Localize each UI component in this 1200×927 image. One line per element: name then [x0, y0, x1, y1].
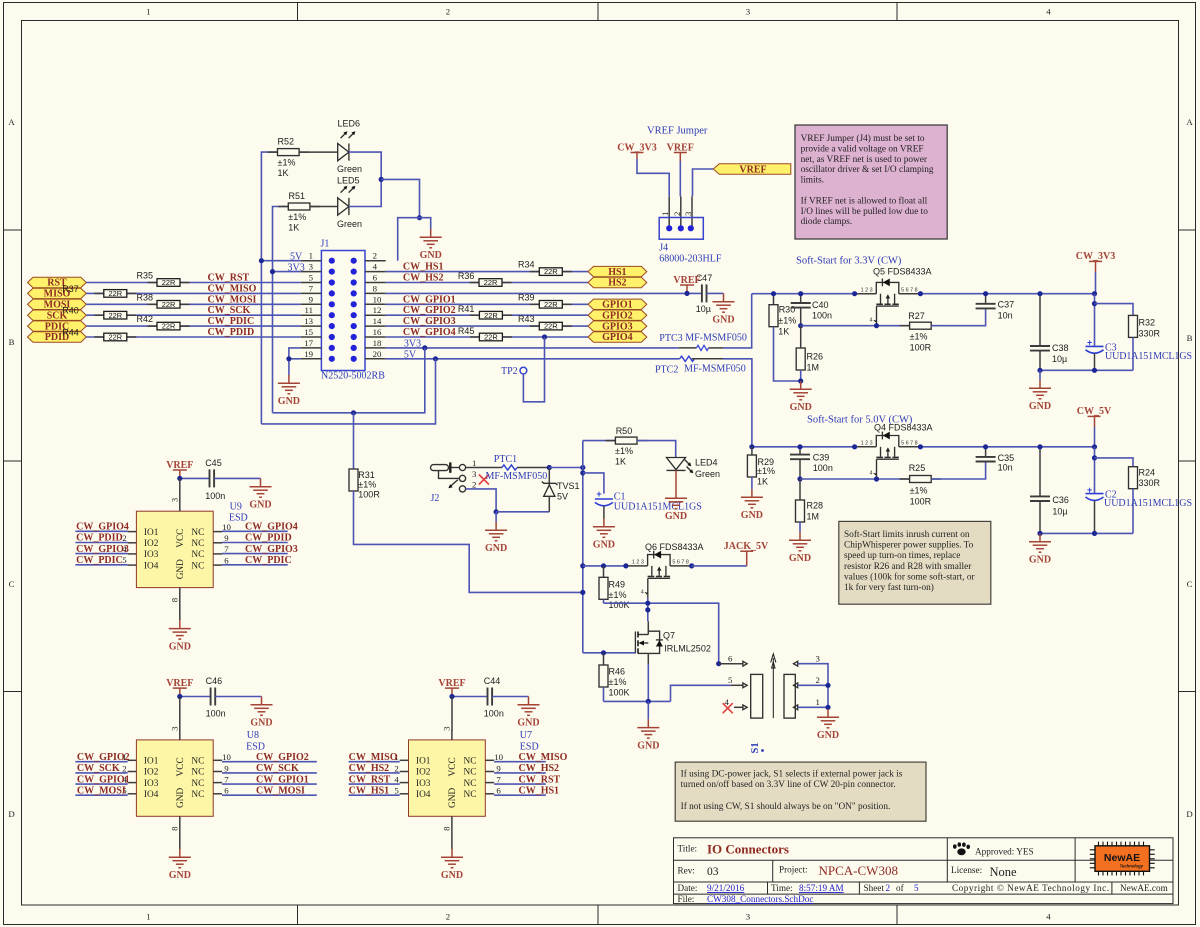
wire C3 branch: [1094, 294, 1096, 347]
ground C46: [250, 697, 272, 729]
node pin3 3V3: [270, 269, 275, 274]
node Q5 gate tap: [874, 323, 879, 328]
wire J2 pin2 to gnd rail: [466, 489, 497, 512]
ground C38: [1029, 380, 1051, 412]
svg-text:1k for very fast turn-on): 1k for very fast turn-on): [844, 582, 934, 593]
capacitor C2 UUD1A151MCL1GS: [1086, 485, 1193, 534]
svg-text:Copyright © NewAE Technology I: Copyright © NewAE Technology Inc.: [952, 883, 1109, 893]
LED LED4: [667, 457, 721, 479]
wire C45 to gnd: [214, 477, 260, 479]
node Q5 drain: [918, 291, 923, 296]
svg-text:NPCA-CW308: NPCA-CW308: [819, 863, 898, 878]
U9 right wires: [222, 531, 288, 565]
wire jack vertical main: [582, 441, 584, 653]
port GPIO1: [588, 299, 647, 310]
power VREF U9: [166, 460, 193, 479]
wire LED junction to GND branch: [381, 179, 419, 217]
wire PTC3 to 3.3V bus: [723, 294, 752, 348]
resistor R38: [137, 292, 190, 309]
connector J2 barrel jack: [431, 458, 478, 504]
resistor R27 100R: [900, 311, 942, 352]
LED LED5: [337, 176, 362, 229]
svg-text:net, as VREF net is used to po: net, as VREF net is used to power: [801, 155, 928, 165]
wire VREF port to J4 pin3: [693, 169, 714, 196]
wire PDIC row: [86, 325, 157, 327]
resistor R28 1M: [796, 479, 824, 532]
svg-text:100K: 100K: [609, 600, 630, 610]
svg-text:CW_SCK: CW_SCK: [256, 763, 299, 774]
wire S1 pin1: [798, 706, 828, 708]
svg-text:D: D: [1186, 809, 1192, 819]
node R26 bottom: [798, 378, 803, 383]
wire source gnd drop: [647, 701, 649, 719]
svg-text:R39: R39: [518, 292, 535, 302]
resistor R50 1K: [583, 426, 647, 467]
svg-text:TVS1: TVS1: [557, 481, 580, 491]
svg-text:6: 6: [728, 654, 733, 664]
capacitor C37 10n: [976, 294, 1015, 321]
svg-text:5: 5: [728, 675, 733, 685]
svg-text:3: 3: [309, 262, 314, 272]
svg-text:CW_HS2: CW_HS2: [519, 763, 560, 774]
wire 3.3V input bus: [752, 293, 855, 295]
wire branch to GND: [420, 218, 431, 229]
svg-text:R38: R38: [137, 292, 154, 302]
svg-text:R44: R44: [62, 327, 79, 337]
svg-text:4: 4: [1046, 7, 1051, 17]
node C2 bottom: [1092, 531, 1097, 536]
svg-text:CW_MOSI: CW_MOSI: [256, 785, 305, 796]
svg-text:UUD1A151MCL1GS: UUD1A151MCL1GS: [1105, 351, 1192, 362]
svg-text:J2: J2: [431, 493, 440, 504]
wire 3.3V gate rail: [801, 325, 910, 327]
svg-text:6: 6: [224, 786, 229, 796]
fuse PTC3 MF-MSMF050: [659, 333, 747, 351]
wire 3.3V output bus: [920, 293, 1094, 295]
wire Q7 source drop: [647, 664, 649, 701]
transistor Q5 FDS8433A: [855, 267, 932, 326]
svg-text:6: 6: [224, 555, 229, 565]
wire VREF to J4 pin2: [679, 161, 681, 196]
svg-text:B: B: [1187, 333, 1193, 343]
svg-text:I/O lines will be pulled low d: I/O lines will be pulled low due to: [801, 207, 929, 217]
svg-text:R52: R52: [278, 136, 295, 146]
LED LED6: [337, 119, 362, 175]
resistor R42: [137, 314, 190, 331]
wire Q6 drain to JACK_5V: [692, 565, 747, 567]
svg-text:CW_PDID: CW_PDID: [245, 533, 292, 544]
svg-text:R41: R41: [458, 304, 475, 314]
svg-text:±1%: ±1%: [757, 466, 775, 476]
node S1 pin1: [825, 705, 830, 710]
frame row ticks left: [4, 230, 22, 692]
svg-text:100n: 100n: [206, 709, 226, 719]
svg-text:R51: R51: [289, 191, 306, 201]
wire 3V3 lower rail: [273, 348, 425, 413]
svg-text:1: 1: [146, 7, 150, 17]
svg-text:100R: 100R: [910, 496, 932, 506]
TITLEBLOCK: [674, 838, 1174, 904]
transistor Q7 IRLML2502: [635, 621, 710, 664]
ground J1: [278, 375, 300, 407]
svg-text:CW_HS1: CW_HS1: [519, 785, 560, 796]
node C35 top: [983, 444, 988, 449]
wire U9 vcc stub: [179, 478, 181, 502]
svg-text:MF-MSMF050: MF-MSMF050: [486, 471, 548, 482]
approved paw icon: [953, 842, 970, 855]
svg-text:GPIO2: GPIO2: [602, 310, 633, 321]
wire LED cathodes join: [349, 152, 381, 206]
resistor R41: [458, 304, 512, 320]
port GPIO4: [588, 332, 647, 343]
svg-text:C38: C38: [1052, 343, 1069, 353]
svg-text:±1%: ±1%: [278, 157, 296, 167]
resistor R36: [458, 271, 512, 287]
svg-text:CW_GPIO2: CW_GPIO2: [256, 752, 309, 763]
svg-text:C45: C45: [205, 458, 222, 468]
node C40 bottom gate rail: [798, 323, 803, 328]
wire R51 left vertical 3V3: [273, 207, 289, 413]
svg-text:CW_PDIC: CW_PDIC: [76, 555, 123, 566]
svg-text:If VREF net is allowed to floa: If VREF net is allowed to float all: [801, 195, 928, 206]
svg-text:R28: R28: [807, 501, 824, 511]
wire GPIO4 row: [386, 336, 480, 338]
frame row ticks right: [1179, 230, 1196, 692]
resistor R49 100K: [599, 566, 630, 610]
port HS1: [588, 266, 647, 277]
svg-text:3: 3: [683, 211, 693, 216]
resistor R44: [62, 327, 136, 341]
svg-text:R35: R35: [137, 271, 154, 281]
resistor R45: [458, 326, 512, 342]
svg-text:Rev:: Rev:: [678, 866, 695, 876]
svg-text:CW_MISO: CW_MISO: [349, 752, 398, 763]
svg-text:5: 5: [914, 883, 919, 893]
capacitor C44 100n: [484, 676, 504, 718]
svg-text:±1%: ±1%: [288, 212, 306, 222]
svg-text:LED4: LED4: [695, 457, 718, 467]
svg-text:Q7: Q7: [663, 631, 675, 641]
svg-text:10: 10: [222, 522, 231, 532]
resistor R32 330R: [1129, 315, 1161, 370]
node S1 pin6: [716, 661, 721, 666]
ground U8 pin8: [169, 849, 191, 881]
node R24 branch: [1092, 455, 1097, 460]
chip U7 ESD: [400, 726, 539, 849]
svg-text:C: C: [9, 579, 15, 589]
svg-text:CW_MOSI: CW_MOSI: [77, 785, 126, 796]
U7 right wires: [494, 762, 546, 796]
svg-text:15: 15: [304, 327, 313, 337]
svg-text:CW_PDIC: CW_PDIC: [208, 316, 255, 327]
wire pin3 to 3V3 vertical: [273, 271, 301, 273]
svg-text:10n: 10n: [998, 463, 1013, 473]
svg-text:1K: 1K: [288, 223, 299, 233]
svg-text:16: 16: [373, 327, 382, 337]
svg-text:CW_SCK: CW_SCK: [77, 763, 120, 774]
svg-text:4: 4: [373, 262, 378, 272]
svg-text:ESD: ESD: [246, 741, 265, 752]
svg-text:3: 3: [816, 654, 821, 664]
svg-text:100R: 100R: [910, 342, 932, 352]
port GPIO3: [588, 321, 647, 332]
svg-text:CW_HS2: CW_HS2: [403, 273, 444, 284]
U9 left wires: [75, 531, 127, 565]
ground C47: [712, 293, 734, 325]
wire R25 to C35: [931, 462, 985, 480]
svg-text:20: 20: [373, 349, 382, 359]
svg-text:R32: R32: [1139, 317, 1156, 327]
ground C1: [593, 519, 615, 551]
svg-text:10n: 10n: [998, 310, 1013, 320]
svg-text:CW_GPIO2: CW_GPIO2: [77, 752, 130, 763]
svg-text:2: 2: [472, 480, 476, 490]
svg-text:9: 9: [224, 533, 229, 543]
svg-text:U9: U9: [230, 502, 242, 513]
fuse PTC1 MF-MSMF050: [466, 454, 550, 482]
power CW_5V: [1077, 406, 1112, 447]
ground U7 pin8: [441, 849, 463, 881]
resistor R46 100K: [599, 653, 630, 702]
svg-text:R42: R42: [137, 314, 154, 324]
power JACK_5V: [724, 541, 769, 566]
svg-text:C: C: [1187, 579, 1193, 589]
U8 left pin numbers: [122, 752, 127, 796]
wire PTC2 to 5.0V bus: [723, 359, 752, 447]
svg-text:10µ: 10µ: [1052, 507, 1067, 517]
svg-text:18: 18: [373, 338, 382, 348]
svg-text:Time:: Time:: [771, 883, 793, 893]
port RST: [28, 277, 87, 288]
svg-text:TP2: TP2: [501, 366, 518, 377]
svg-text:R49: R49: [609, 579, 626, 589]
wire to S1 pin5: [671, 685, 731, 701]
node pin19 gnd: [286, 356, 291, 361]
svg-text:7: 7: [224, 775, 229, 785]
node C40 top: [798, 291, 803, 296]
svg-text:2: 2: [672, 212, 682, 216]
svg-text:B: B: [9, 337, 15, 347]
svg-text:1: 1: [146, 912, 150, 922]
svg-text:CW_3V3: CW_3V3: [1076, 251, 1115, 262]
svg-text:R37: R37: [62, 284, 79, 294]
svg-text:None: None: [990, 865, 1018, 879]
svg-text:Q4 FDS8433A: Q4 FDS8433A: [874, 423, 933, 433]
node C37 top: [983, 291, 988, 296]
wire TVS bottom rail: [496, 511, 549, 513]
svg-text:Q6 FDS8433A: Q6 FDS8433A: [645, 542, 704, 552]
testpoint TP2: [501, 366, 527, 377]
U8 right wires: [222, 762, 317, 796]
connector J4 68000-203HLF: [659, 196, 722, 264]
svg-text:R34: R34: [518, 260, 535, 270]
resistor R34: [518, 260, 572, 277]
node Q6 source: [623, 563, 628, 568]
wire 5V lower rail: [261, 359, 435, 424]
note box soft-start: [839, 521, 991, 604]
wire Q6 bus: [583, 565, 626, 567]
svg-text:100n: 100n: [812, 311, 832, 321]
svg-text:PTC2: PTC2: [655, 364, 678, 375]
svg-text:Q5 FDS8433A: Q5 FDS8433A: [873, 267, 932, 277]
svg-text:IRLML2502: IRLML2502: [664, 644, 711, 654]
node TVS gnd rail: [494, 509, 499, 514]
node Q4 drain: [918, 444, 923, 449]
wire R51 to LED5: [310, 206, 338, 208]
port MOSI: [28, 299, 87, 310]
svg-text:R25: R25: [909, 463, 926, 473]
svg-text:IO Connectors: IO Connectors: [707, 842, 789, 857]
resistor R26 1M: [796, 326, 823, 381]
svg-text:R45: R45: [458, 326, 475, 336]
resistor R31 100R: [349, 413, 380, 500]
ground R28: [789, 532, 811, 564]
svg-text:17: 17: [304, 338, 313, 348]
svg-text:1K: 1K: [778, 327, 789, 337]
svg-text:U7: U7: [520, 730, 532, 741]
svg-text:NewAE.com: NewAE.com: [1120, 883, 1168, 893]
wire PDID row: [86, 336, 104, 338]
svg-text:VREF: VREF: [739, 164, 766, 175]
svg-text:JACK_5V: JACK_5V: [724, 541, 769, 552]
svg-text:14: 14: [373, 316, 382, 326]
wire R30 bottom to gnd rail: [774, 327, 801, 381]
node VREF U8: [177, 694, 182, 699]
wire Q7 source rail: [604, 700, 671, 702]
svg-text:of: of: [896, 883, 905, 893]
node jack net PTC1 out: [547, 465, 552, 470]
resistor R40: [62, 306, 136, 320]
svg-text:R46: R46: [609, 667, 626, 677]
capacitor C47: [696, 273, 713, 314]
svg-text:Green: Green: [337, 164, 362, 174]
wire TP2 branch: [523, 337, 544, 402]
resistor R39: [518, 292, 572, 309]
svg-text:CW_MOSI: CW_MOSI: [208, 294, 257, 305]
svg-text:CW_SCK: CW_SCK: [208, 305, 251, 316]
svg-text:ChipWhisperer power supplies.: ChipWhisperer power supplies. To: [844, 541, 974, 551]
svg-text:3: 3: [746, 912, 751, 922]
svg-text:7: 7: [496, 775, 501, 785]
svg-text:UUD1A151MCL1GS: UUD1A151MCL1GS: [1104, 498, 1192, 509]
svg-text:If using DC-power jack, S1 sel: If using DC-power jack, S1 selects if ex…: [681, 768, 903, 779]
port MISO: [28, 288, 87, 299]
wire Q6 gate rail: [604, 603, 719, 664]
svg-text:R24: R24: [1139, 467, 1156, 477]
svg-text:7: 7: [224, 544, 229, 554]
port PDID: [28, 332, 87, 343]
svg-text:100n: 100n: [205, 491, 225, 501]
svg-text:1: 1: [309, 251, 313, 261]
wire C2 branch: [1094, 447, 1096, 494]
node CW_3V3 bus: [1092, 291, 1097, 296]
svg-text:Project:: Project:: [779, 865, 808, 875]
svg-text:1K: 1K: [615, 456, 626, 466]
wire HS1 row: [386, 271, 540, 273]
svg-text:A: A: [1186, 117, 1193, 127]
ground R29: [741, 489, 763, 521]
svg-text:11: 11: [305, 305, 313, 315]
wire 5.0V output bus: [920, 446, 1094, 448]
power CW_3V3: [1076, 251, 1115, 294]
wire R52 left vertical 5V: [261, 152, 277, 424]
chip U9 ESD: [128, 497, 248, 620]
svg-text:R26: R26: [807, 352, 824, 362]
svg-text:values (100k for some soft-sta: values (100k for some soft-start, or: [844, 571, 976, 582]
capacitor C39 100n: [790, 447, 833, 479]
capacitor C46 100n: [206, 676, 226, 718]
svg-text:100n: 100n: [484, 709, 504, 719]
svg-text:R36: R36: [458, 271, 475, 281]
node 5V rail branch: [433, 356, 438, 361]
wire 3.3V gnd rail right: [1040, 369, 1133, 371]
svg-text:9: 9: [224, 763, 229, 773]
power VREF U8: [166, 678, 193, 697]
svg-text:CW_GPIO1: CW_GPIO1: [77, 774, 130, 785]
svg-text:Soft-Start limits inrush curre: Soft-Start limits inrush current on: [844, 529, 970, 540]
svg-text:1K: 1K: [757, 477, 768, 487]
svg-text:03: 03: [707, 866, 719, 878]
wire pin20 5V PTC2 rail: [386, 358, 680, 360]
resistor R35: [137, 271, 190, 288]
svg-text:4: 4: [394, 775, 399, 785]
wire 5.0V input bus: [752, 446, 855, 448]
svg-text:Soft-Start for 3.3V (CW): Soft-Start for 3.3V (CW): [796, 256, 902, 267]
svg-text:2: 2: [886, 883, 891, 893]
svg-text:J4: J4: [659, 243, 668, 254]
ground C44: [517, 697, 539, 729]
svg-text:5: 5: [309, 273, 314, 283]
wire pin1 to 5V vertical: [261, 260, 300, 262]
U7 left wires: [349, 762, 400, 796]
node GPIO4 TP2 branch: [542, 334, 547, 339]
power VREF at C47: [673, 275, 700, 294]
svg-text:5V: 5V: [557, 492, 568, 502]
node Q6 drain: [689, 563, 694, 568]
svg-text:10µ: 10µ: [1052, 354, 1067, 364]
wire S1 pin2: [798, 684, 828, 686]
svg-text:CW_GPIO4: CW_GPIO4: [245, 522, 298, 533]
capacitor C36 10u: [1030, 447, 1069, 534]
svg-text:Technology: Technology: [1120, 864, 1144, 869]
power VREF U7: [438, 678, 465, 697]
nc X on J2 pin3: [479, 475, 489, 485]
wire VREF to C46: [180, 696, 211, 698]
chip U8 ESD: [128, 726, 265, 849]
capacitor C35 10n: [976, 447, 1015, 473]
wire RST row: [86, 282, 157, 284]
resistor R37: [62, 284, 136, 298]
svg-text:CW_RST: CW_RST: [519, 774, 561, 785]
svg-text:5: 5: [394, 786, 399, 796]
node Q6 bus tap: [580, 563, 585, 568]
capacitor C45 100n: [205, 458, 225, 501]
wire R24 branch: [1095, 458, 1134, 467]
wire LED4 to gnd: [675, 470, 677, 490]
node R46 top: [601, 650, 606, 655]
frame column ticks top: [298, 3, 898, 21]
svg-text:1K: 1K: [278, 168, 289, 178]
svg-text:4: 4: [870, 318, 873, 324]
wire S1 pin3: [798, 664, 828, 708]
svg-text:A: A: [8, 117, 15, 127]
svg-text:8: 8: [373, 283, 378, 293]
svg-text:limits.: limits.: [801, 176, 825, 186]
svg-text:UUD1A151MCL1GS: UUD1A151MCL1GS: [614, 502, 702, 513]
node Q6 gate: [645, 601, 650, 606]
svg-text:10: 10: [494, 752, 503, 762]
svg-text:Green: Green: [695, 469, 720, 479]
